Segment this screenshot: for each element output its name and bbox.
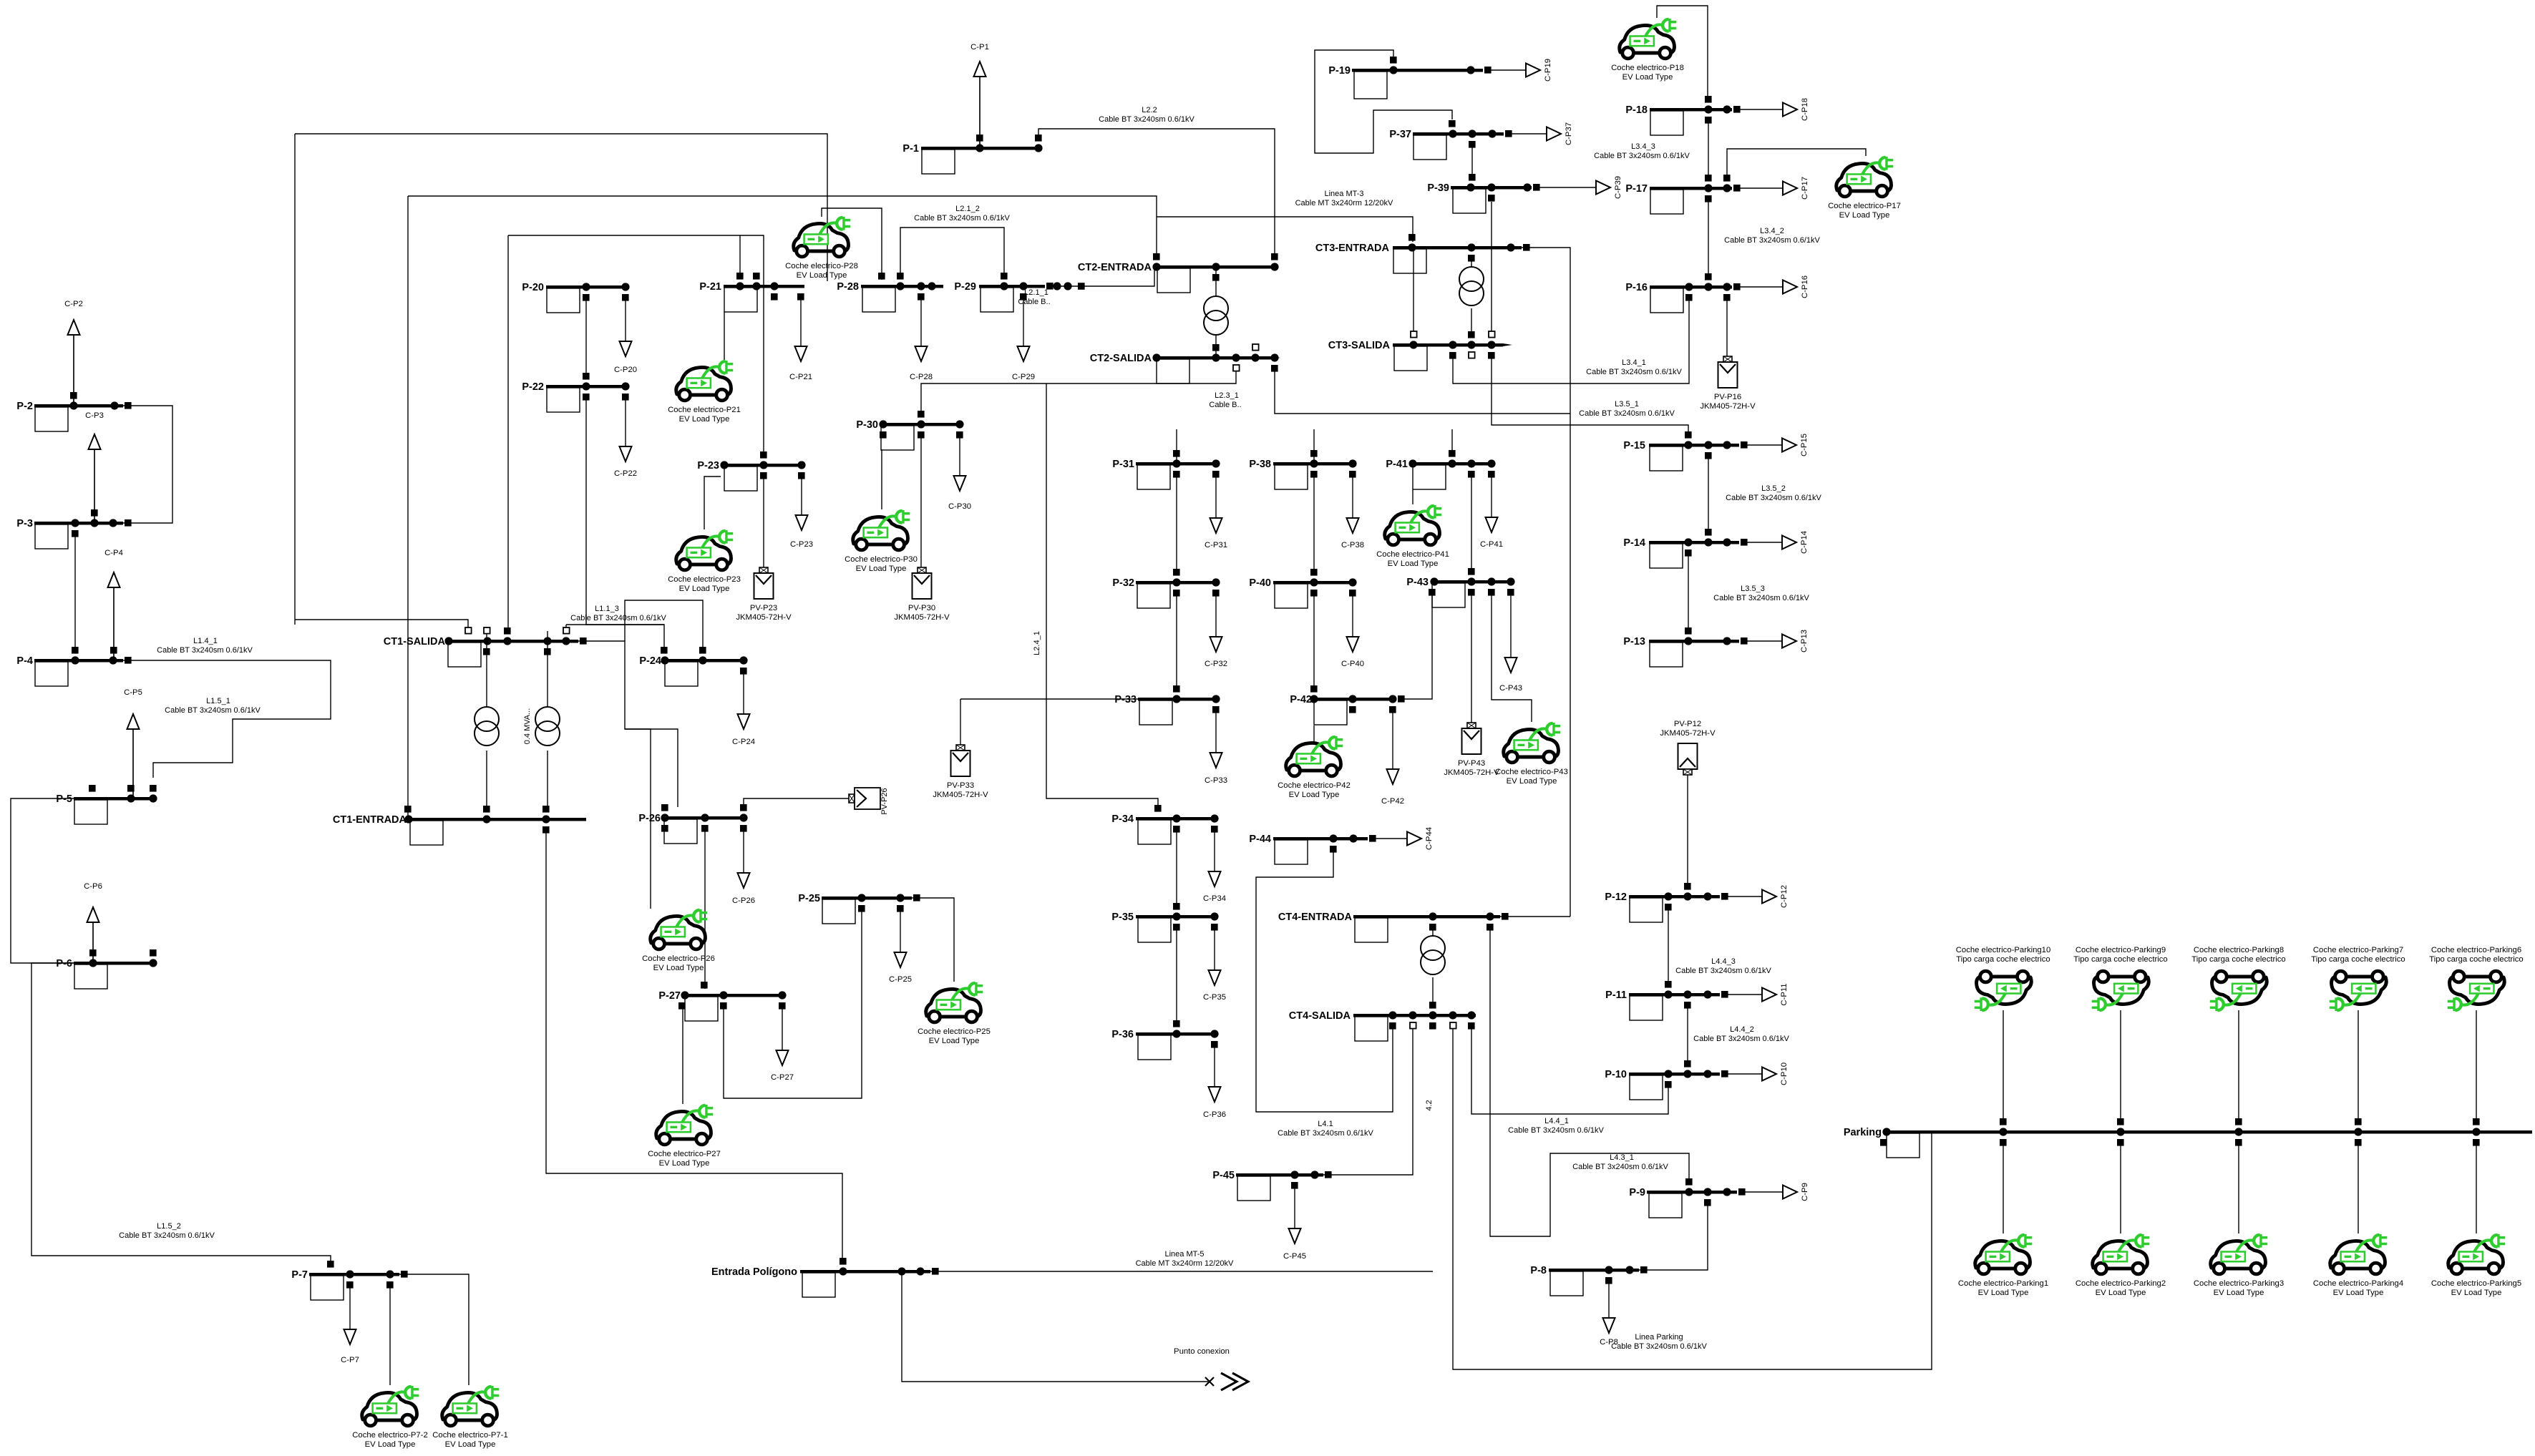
bus CT4-SALIDA [1289, 1002, 1476, 1041]
EV car Coche electrico-P23 [676, 530, 734, 570]
load C-P28 [910, 296, 933, 381]
wire P-41 to car P-41 [1412, 489, 1414, 504]
load C-P39 [1538, 176, 1622, 199]
bus P-40 [1249, 569, 1356, 608]
bus P-30 [856, 411, 963, 450]
wire CT3-ENTRADA to SALIDA bypass [1413, 248, 1414, 336]
wire car P-28 loop [822, 208, 882, 280]
wire CT4 transformer stubs [1432, 927, 1434, 936]
bus P-25 [798, 893, 920, 924]
label L4.4_1 [1508, 1117, 1604, 1135]
svg-text:P-21: P-21 [699, 281, 721, 293]
svg-text:P-31: P-31 [1112, 459, 1134, 470]
svg-text:Coche electrico-P41: Coche electrico-P41 [1376, 550, 1449, 559]
svg-text:CT2-SALIDA: CT2-SALIDA [1090, 353, 1152, 364]
wire PV-P12 to P-12 [1687, 775, 1688, 887]
svg-text:EV Load Type: EV Load Type [365, 1440, 416, 1449]
svg-text:CT3-SALIDA: CT3-SALIDA [1328, 340, 1391, 351]
svg-text:C-P39: C-P39 [1614, 176, 1622, 199]
svg-text:C-P21: C-P21 [789, 373, 812, 381]
load C-P18 [1738, 98, 1809, 121]
wire P-25 right to car P-25 [912, 898, 954, 982]
bus P-39 [1427, 174, 1539, 213]
transformer CT2 [1204, 296, 1228, 335]
svg-text:EV Load Type: EV Load Type [679, 415, 730, 424]
wire CT2 transformer stubs [1215, 267, 1217, 296]
bus P-17 [1625, 175, 1740, 214]
svg-text:C-P17: C-P17 [1801, 177, 1809, 200]
wire C-P1 stem [979, 77, 981, 148]
wire Linea Parking CT4 to Parking [1453, 1026, 1932, 1369]
wire P-37 to P-39 [1471, 144, 1473, 177]
bus P-35 [1111, 903, 1218, 942]
EV car Coche electrico-Parking3 [2211, 1234, 2268, 1274]
label L2.1_1 [1018, 288, 1050, 306]
bus P-23 [697, 451, 805, 491]
load C-P10 [1724, 1062, 1789, 1085]
wire P-43 to car P-43 [1492, 590, 1532, 722]
svg-text:Cable BT 3x240sm 0.6/1kV: Cable BT 3x240sm 0.6/1kV [1675, 967, 1771, 975]
svg-text:L1.4_1: L1.4_1 [193, 637, 218, 645]
svg-text:P-19: P-19 [1328, 65, 1351, 77]
label L4.4_2 [1693, 1025, 1789, 1043]
svg-text:CT2-ENTRADA: CT2-ENTRADA [1078, 262, 1152, 273]
wire CT3 transformer stubs [1471, 258, 1472, 267]
svg-text:Coche electrico-P26: Coche electrico-P26 [642, 954, 715, 963]
bus P-28 [837, 273, 943, 312]
svg-text:P-20: P-20 [522, 282, 544, 293]
label L4.1 [1278, 1120, 1373, 1138]
svg-text:C-P1: C-P1 [970, 43, 989, 52]
wire P-3 to P-4 [74, 533, 76, 650]
wire CT4-SALIDA to P-45 [1323, 1026, 1413, 1175]
wire car P-17 loop [1727, 149, 1866, 178]
svg-text:Linea Parking: Linea Parking [1635, 1333, 1683, 1342]
load C-P14 [1746, 531, 1809, 554]
svg-text:L4.3_1: L4.3_1 [1610, 1153, 1634, 1162]
svg-text:Coche electrico-P7-1: Coche electrico-P7-1 [432, 1431, 507, 1440]
svg-text:EV Load Type: EV Load Type [2214, 1289, 2264, 1297]
load C-P35 [1203, 927, 1226, 1002]
load C-P16 [1738, 275, 1809, 298]
EV car Coche electrico-P43 [1504, 723, 1561, 763]
wire P-29 to CT2-ENTRADA [1051, 267, 1154, 286]
load C-P24 [732, 670, 755, 746]
EV car Coche electrico-P18 [1620, 19, 1677, 59]
load C-P38 [1341, 474, 1364, 549]
load C-P36 [1203, 1044, 1226, 1119]
svg-text:P-17: P-17 [1625, 183, 1648, 195]
load C-P7 [341, 1284, 359, 1364]
svg-text:Coche electrico-P27: Coche electrico-P27 [648, 1150, 721, 1158]
svg-text:C-P12: C-P12 [1780, 885, 1789, 908]
svg-text:P-3: P-3 [16, 518, 33, 529]
bus P-10 [1605, 1060, 1728, 1100]
svg-text:Cable BT 3x240sm 0.6/1kV: Cable BT 3x240sm 0.6/1kV [165, 706, 261, 715]
svg-text:P-25: P-25 [798, 893, 820, 904]
svg-text:EV Load Type: EV Load Type [1839, 211, 1890, 220]
svg-text:L1.1_3: L1.1_3 [595, 605, 619, 613]
svg-text:C-P42: C-P42 [1381, 797, 1404, 806]
svg-text:C-P36: C-P36 [1203, 1110, 1226, 1119]
wire P-38 chain [1313, 429, 1315, 464]
svg-text:C-P24: C-P24 [732, 738, 755, 746]
wire CT1-SALIDA right to P-24/P-26 [578, 641, 651, 909]
wire P-43 to PV-P43 [1471, 590, 1472, 723]
svg-text:P-1: P-1 [902, 143, 919, 155]
wire L1.1_3 horiz [566, 624, 664, 625]
wire P-21 to car P-21 [724, 312, 725, 360]
bus P-18 [1625, 96, 1740, 135]
svg-text:Cable BT 3x240sm 0.6/1kV: Cable BT 3x240sm 0.6/1kV [1579, 409, 1675, 418]
wire L2.4_1 branch to PV-P33 and P-33 [960, 698, 1138, 700]
svg-text:Cable BT 3x240sm 0.6/1kV: Cable BT 3x240sm 0.6/1kV [1278, 1129, 1373, 1138]
svg-text:C-P19: C-P19 [1544, 59, 1552, 82]
load C-P26 [732, 828, 755, 905]
svg-text:C-P5: C-P5 [124, 688, 142, 697]
bus P-31 [1112, 450, 1220, 489]
wire CT3-ENTRADA right down to CT4 [1522, 248, 1570, 917]
wire P-35 chain to P-36 [1176, 927, 1177, 1023]
bus P-44 [1249, 834, 1376, 864]
label L3.4_1 [1586, 358, 1682, 376]
label L1.5_1 [165, 697, 261, 715]
svg-text:L2.1_1: L2.1_1 [1024, 288, 1048, 297]
svg-text:Cable MT 3x240rm 12/20kV: Cable MT 3x240rm 12/20kV [1136, 1259, 1234, 1268]
svg-text:Linea MT-5: Linea MT-5 [1164, 1250, 1204, 1259]
svg-text:CT4-ENTRADA: CT4-ENTRADA [1278, 912, 1353, 923]
EV car Coche electrico-Parking4 [2330, 1234, 2388, 1274]
wire P-7 to car P7-2 [389, 1284, 391, 1385]
EV car Coche electrico-Parking5 [2448, 1234, 2506, 1274]
bus P-33 [1114, 685, 1220, 725]
svg-text:L3.4_1: L3.4_1 [1622, 358, 1646, 367]
svg-text:EV Load Type: EV Load Type [679, 585, 730, 593]
load C-P3 [85, 411, 104, 523]
svg-text:C-P6: C-P6 [84, 882, 102, 891]
svg-text:C-P45: C-P45 [1283, 1252, 1306, 1261]
bus P-16 [1625, 273, 1740, 313]
load C-P41 [1480, 474, 1503, 549]
svg-text:L3.5_2: L3.5_2 [1761, 484, 1786, 493]
load C-P6 [84, 882, 102, 963]
transformer CT1-A 0.4MVA [475, 707, 499, 746]
wire P-16 to PV-P16 [1726, 297, 1728, 356]
svg-text:C-P30: C-P30 [948, 502, 971, 511]
wire P-31 chain [1176, 429, 1177, 464]
load C-P32 [1205, 592, 1227, 668]
svg-text:P-13: P-13 [1623, 636, 1645, 648]
bus P-14 [1623, 529, 1747, 568]
wire CT3-SALIDA L3.4_1 to P-16 [1453, 297, 1689, 383]
EV car Coche electrico-Parking1 [1975, 1234, 2033, 1274]
bus P-12 [1605, 883, 1728, 922]
svg-text:Tipo carga coche electrico: Tipo carga coche electrico [2429, 955, 2523, 964]
wire L1.4_1 P-4 right [123, 660, 331, 778]
wire C-P3 stem [94, 450, 95, 523]
EV car Coche electrico-P7-2 [362, 1386, 419, 1426]
svg-text:P-40: P-40 [1249, 577, 1271, 589]
load C-P12 [1724, 885, 1789, 908]
bus P-2 [16, 392, 131, 431]
svg-text:EV Load Type: EV Load Type [1289, 791, 1340, 799]
bus P-15 [1623, 431, 1747, 471]
bus P-13 [1623, 627, 1747, 667]
label L2.2 [1099, 106, 1194, 124]
wire P-15 to P-14 (L3.5_2) [1708, 456, 1709, 532]
svg-text:P-23: P-23 [697, 460, 719, 472]
transformer CT1-B 0.4MVA [535, 707, 560, 746]
svg-text:PV-P33: PV-P33 [947, 781, 974, 790]
load C-P29 [1012, 296, 1035, 381]
wire P-14 to P-13 (L3.5_3) [1688, 553, 1689, 630]
svg-text:L3.5_3: L3.5_3 [1741, 585, 1765, 593]
svg-text:P-38: P-38 [1249, 459, 1271, 470]
wire P-42 to P-43 [1403, 590, 1432, 699]
svg-text:C-P31: C-P31 [1205, 541, 1227, 549]
bus P-37 [1389, 120, 1512, 160]
wire CT3-SALIDA L3.5_1 to P-15 [1492, 356, 1688, 434]
wire CT4-ENTRADA feed right [1500, 916, 1570, 917]
svg-text:C-P13: C-P13 [1800, 630, 1809, 653]
svg-text:PV-P26: PV-P26 [880, 788, 889, 814]
svg-text:Coche electrico-Parking1: Coche electrico-Parking1 [1958, 1279, 2048, 1288]
svg-text:EV Load Type: EV Load Type [929, 1037, 980, 1045]
svg-text:Tipo carga coche electrico: Tipo carga coche electrico [1956, 955, 2050, 964]
bus P-36 [1111, 1020, 1218, 1060]
bus P-20 [522, 282, 629, 313]
svg-text:P-8: P-8 [1530, 1265, 1547, 1276]
EV car Coche electrico-P28 [794, 217, 851, 257]
svg-text:JKM405-72H-V: JKM405-72H-V [1660, 729, 1716, 738]
svg-text:Coche electrico-P25: Coche electrico-P25 [918, 1027, 991, 1036]
label L2.1_2 [914, 205, 1010, 223]
svg-text:C-P38: C-P38 [1341, 541, 1364, 549]
svg-text:Coche electrico-P30: Coche electrico-P30 [845, 555, 918, 564]
svg-text:L2.4_1: L2.4_1 [1033, 631, 1041, 655]
wire P-20 chain to P-22 [585, 297, 587, 373]
svg-text:Cable BT 3x240sm 0.6/1kV: Cable BT 3x240sm 0.6/1kV [1572, 1163, 1668, 1171]
wire C-P4 stem [113, 588, 115, 660]
EV car Coche electrico-P17 [1836, 157, 1894, 197]
PV panel PV-P23 [754, 567, 774, 599]
svg-text:P-35: P-35 [1111, 912, 1134, 923]
svg-text:Coche electrico-P42: Coche electrico-P42 [1278, 781, 1351, 790]
EV car Coche electrico-P42 [1286, 736, 1343, 776]
wire P-39 to CT3-SALIDA [1491, 202, 1492, 336]
svg-text:EV Load Type: EV Load Type [1622, 73, 1673, 82]
svg-text:C-P29: C-P29 [1012, 373, 1035, 381]
svg-text:L1.5_2: L1.5_2 [157, 1222, 181, 1231]
load C-P27 [771, 1005, 794, 1082]
wire P-23 to car P-23 [704, 477, 721, 529]
label L3.5_1 [1579, 400, 1675, 418]
wire P-26 to PV-P26 [744, 798, 849, 807]
wire Parking columns [2003, 1010, 2004, 1122]
punto conexion symbol [1205, 1377, 1214, 1386]
svg-text:Coche electrico-P18: Coche electrico-P18 [1611, 64, 1684, 72]
svg-text:Cable BT 3x240sm 0.6/1kV: Cable BT 3x240sm 0.6/1kV [1693, 1035, 1789, 1043]
wire P-19 loop to P-37 [1315, 50, 1452, 153]
svg-text:C-P40: C-P40 [1341, 660, 1364, 668]
bus P-4 [16, 647, 131, 686]
svg-text:C-P27: C-P27 [771, 1073, 794, 1082]
svg-text:EV Load Type: EV Load Type [2096, 1289, 2146, 1297]
svg-text:L4.4_1: L4.4_1 [1544, 1117, 1569, 1125]
svg-text:PV-P30: PV-P30 [908, 604, 935, 612]
load C-P1 [970, 43, 989, 148]
load C-P42 [1381, 710, 1404, 806]
wire P-2 to P-3 [123, 406, 172, 523]
EV car Coche electrico-P7-1 [442, 1386, 500, 1426]
wire punto conexion [902, 1271, 1208, 1382]
svg-text:Cable BT 3x240sm 0.6/1kV: Cable BT 3x240sm 0.6/1kV [1713, 594, 1809, 602]
svg-text:CT1-ENTRADA: CT1-ENTRADA [333, 814, 407, 826]
svg-text:C-P14: C-P14 [1800, 531, 1809, 554]
label L2.3_1 [1209, 391, 1241, 409]
svg-text:P-36: P-36 [1111, 1029, 1134, 1040]
svg-text:Cable BT 3x240sm 0.6/1kV: Cable BT 3x240sm 0.6/1kV [1508, 1126, 1604, 1135]
svg-text:P-44: P-44 [1249, 834, 1271, 845]
svg-text:Cable BT 3x240sm 0.6/1kV: Cable BT 3x240sm 0.6/1kV [570, 614, 666, 622]
wire L4.3_1 CT4 to P-9 [1490, 927, 1689, 1236]
svg-text:C-P18: C-P18 [1801, 98, 1809, 121]
bus P-34 [1111, 805, 1218, 844]
wire L2.1_2 P-28 to P-29 loop [900, 228, 1004, 276]
wire P-30 to car P-30 [881, 449, 882, 509]
bus P-7 [291, 1261, 407, 1300]
svg-text:JKM405-72H-V: JKM405-72H-V [736, 613, 792, 622]
load C-P30 [948, 434, 971, 511]
svg-text:C-P35: C-P35 [1203, 993, 1226, 1002]
svg-text:Cable BT 3x240sm 0.6/1kV: Cable BT 3x240sm 0.6/1kV [1724, 236, 1820, 245]
svg-text:P-22: P-22 [522, 381, 544, 393]
bus CT2-ENTRADA [1078, 253, 1279, 293]
load C-P9 [1743, 1183, 1809, 1201]
svg-text:P-4: P-4 [16, 655, 33, 667]
svg-text:Coche electrico-P43: Coche electrico-P43 [1495, 768, 1568, 776]
svg-text:L2.2: L2.2 [1142, 106, 1157, 114]
svg-text:EV Load Type: EV Load Type [856, 565, 907, 573]
load C-P37 [1510, 122, 1573, 145]
label Linea Parking [1611, 1333, 1707, 1351]
bus P-24 [639, 647, 747, 686]
svg-text:L2.1_2: L2.1_2 [955, 205, 980, 213]
label Linea MT-5 [1136, 1250, 1234, 1268]
svg-text:Cable BT 3x240sm 0.6/1kV: Cable BT 3x240sm 0.6/1kV [119, 1231, 215, 1240]
EV car Coche electrico-P30 [853, 510, 910, 550]
svg-text:4.2: 4.2 [1425, 1100, 1434, 1110]
svg-text:EV Load Type: EV Load Type [1978, 1289, 2029, 1297]
svg-text:C-P9: C-P9 [1801, 1183, 1809, 1201]
svg-text:C-P44: C-P44 [1425, 827, 1434, 850]
svg-text:L1.5_1: L1.5_1 [206, 697, 230, 705]
PV panel PV-P33 [951, 745, 970, 776]
svg-text:PV-P23: PV-P23 [750, 604, 777, 612]
svg-text:PV-P43: PV-P43 [1458, 759, 1485, 768]
load C-P8 [1600, 1281, 1618, 1347]
svg-text:JKM405-72H-V: JKM405-72H-V [933, 791, 988, 799]
bus P-42 [1290, 685, 1404, 725]
load C-P34 [1203, 829, 1226, 903]
wire P-30 to PV-P30 [920, 434, 922, 567]
svg-text:P-7: P-7 [291, 1269, 308, 1281]
wire Linea MT-3 CT2 to CT3-ENTRADA [1157, 217, 1413, 242]
wire P-12 to P-11 (L4.4_3) [1668, 906, 1669, 984]
svg-text:P-45: P-45 [1212, 1170, 1235, 1181]
load C-P2 [64, 300, 83, 406]
svg-text:Cable BT 3x240sm 0.6/1kV: Cable BT 3x240sm 0.6/1kV [1099, 115, 1194, 124]
svg-text:C-P16: C-P16 [1801, 275, 1809, 298]
svg-text:Cable BT 3x240sm 0.6/1kV: Cable BT 3x240sm 0.6/1kV [157, 646, 253, 655]
EV car Coche electrico-P41 [1385, 505, 1442, 545]
svg-text:Coche electrico-P28: Coche electrico-P28 [785, 262, 858, 270]
wire CT1-SALIDA right to P-26 upper [625, 729, 678, 807]
svg-text:Coche electrico-P17: Coche electrico-P17 [1828, 202, 1901, 210]
transformer CT4 [1421, 936, 1445, 974]
bus CT3-SALIDA [1328, 331, 1512, 371]
svg-text:P-10: P-10 [1605, 1069, 1627, 1080]
bus P-6 [56, 949, 157, 989]
svg-text:P-37: P-37 [1389, 129, 1411, 140]
wire P-27 loop to P-25 [724, 908, 862, 1098]
svg-text:L3.4_2: L3.4_2 [1760, 227, 1784, 235]
load C-P33 [1205, 709, 1227, 785]
wire P-26 to P-27 chain [704, 828, 706, 989]
label L3.4_3 [1594, 142, 1690, 160]
svg-text:EV Load Type: EV Load Type [797, 271, 847, 280]
label L1.1_3 [570, 605, 666, 622]
svg-text:Coche electrico-Parking5: Coche electrico-Parking5 [2431, 1279, 2521, 1288]
svg-text:P-42: P-42 [1290, 694, 1312, 705]
svg-text:EV Load Type: EV Load Type [445, 1440, 496, 1449]
svg-text:Cable BT 3x240sm 0.6/1kV: Cable BT 3x240sm 0.6/1kV [1611, 1342, 1707, 1351]
svg-text:C-P2: C-P2 [64, 300, 83, 308]
svg-text:P-32: P-32 [1112, 577, 1134, 589]
wire P-27 to car P-27 [682, 1005, 683, 1104]
bus P-45 [1212, 1170, 1331, 1201]
svg-text:P-11: P-11 [1605, 990, 1627, 1001]
bus P-21 [699, 273, 804, 312]
svg-text:P-6: P-6 [56, 958, 72, 969]
svg-text:P-2: P-2 [16, 401, 33, 412]
svg-text:Cable B..: Cable B.. [1018, 298, 1050, 306]
svg-text:P-33: P-33 [1114, 694, 1137, 705]
bus P-9 [1629, 1178, 1745, 1218]
wire P-42 to car [1313, 725, 1315, 743]
svg-text:P-12: P-12 [1605, 891, 1627, 903]
wire y=329 loop to P-21/P-23 [508, 235, 764, 455]
svg-text:Tipo carga coche electrico: Tipo carga coche electrico [2073, 955, 2167, 964]
svg-text:Coche electrico-Parking7: Coche electrico-Parking7 [2313, 946, 2403, 954]
wire car P-18 loop [1657, 6, 1708, 100]
load C-P19 [1489, 59, 1552, 82]
wire P-23 to PV-P23 [763, 476, 764, 567]
wire C-P5 stem [132, 730, 134, 798]
EV car Coche electrico-P26 [651, 909, 708, 949]
svg-text:C-P34: C-P34 [1203, 894, 1226, 903]
wire P-17 to P-16 (L3.4_2) [1708, 198, 1709, 277]
svg-text:C-P32: C-P32 [1205, 660, 1227, 668]
label L3.5_2 [1726, 484, 1821, 502]
svg-text:C-P25: C-P25 [889, 975, 912, 984]
svg-text:Cable BT 3x240sm 0.6/1kV: Cable BT 3x240sm 0.6/1kV [1586, 368, 1682, 376]
svg-text:JKM405-72H-V: JKM405-72H-V [894, 613, 950, 622]
svg-text:EV Load Type: EV Load Type [653, 964, 704, 972]
svg-text:Cable BT 3x240sm 0.6/1kV: Cable BT 3x240sm 0.6/1kV [914, 214, 1010, 223]
svg-text:Cable MT 3x240rm 12/20kV: Cable MT 3x240rm 12/20kV [1295, 199, 1393, 207]
svg-text:C-P22: C-P22 [614, 469, 637, 478]
